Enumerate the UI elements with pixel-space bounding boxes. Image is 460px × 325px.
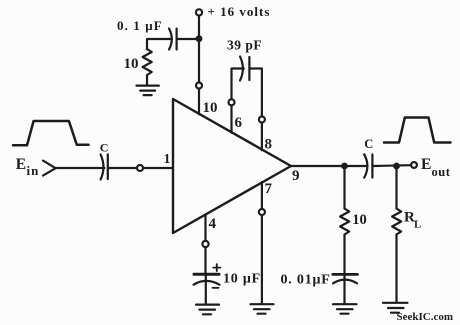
- input arrow: [43, 161, 56, 176]
- label Ein: [16, 156, 40, 178]
- wire output node down to resistor 10: [343, 166, 345, 209]
- wire pin 10 circle to op-amp: [198, 89, 200, 114]
- svg-text:C: C: [100, 140, 109, 154]
- pin 6 label: [235, 115, 243, 131]
- svg-text:8: 8: [265, 137, 273, 153]
- wire terminal to op-amp pin 1: [143, 167, 173, 169]
- label 10 (output resistor): [352, 212, 367, 228]
- label C (input): [100, 140, 109, 154]
- capacitor 39pF: [240, 57, 243, 81]
- wire pin 7 from op-amp: [261, 182, 263, 209]
- capacitor C (input coupling): [101, 155, 104, 180]
- capacitor 0.1uF: [176, 29, 178, 50]
- svg-text:0. 01μF: 0. 01μF: [281, 272, 331, 287]
- svg-text:9: 9: [292, 168, 300, 184]
- svg-text:L: L: [414, 219, 421, 231]
- label 10 (decoupling resistor): [124, 56, 139, 72]
- pin 1 label: [164, 152, 171, 167]
- svg-text:1: 1: [164, 152, 171, 167]
- pin 8 circle: [259, 117, 265, 123]
- label 0.01uF: [281, 272, 331, 287]
- junction dot RL node: [393, 163, 400, 170]
- wire 0.01uF to ground: [343, 276, 345, 303]
- output pulse waveform: [384, 118, 451, 143]
- wire pin 8 circle to op-amp: [261, 123, 263, 150]
- junction dot supply node: [196, 35, 203, 42]
- +16V supply terminal: [196, 9, 202, 15]
- pin 7 circle: [259, 209, 265, 215]
- output wire pin 9: [291, 165, 368, 167]
- minus sign 10uF: [213, 287, 219, 289]
- wire input to capacitor C: [56, 167, 105, 169]
- watermark SeekIC.com: [397, 311, 454, 323]
- capacitor 10uF top plate: [194, 273, 219, 276]
- wire pin 8 riser: [250, 69, 262, 117]
- wire output cap to terminal: [373, 164, 410, 167]
- ground (RL): [383, 303, 408, 313]
- junction dot output node: [341, 163, 348, 170]
- wire +16V down to pin 10 circle: [198, 16, 200, 82]
- svg-text:SeekIC.com: SeekIC.com: [397, 311, 454, 323]
- svg-text:+ 16 volts: + 16 volts: [208, 4, 271, 19]
- ground (pin 7): [251, 304, 274, 314]
- pin 4 circle: [202, 241, 208, 247]
- label C (output): [364, 137, 373, 151]
- wire RL node down to RL: [395, 166, 397, 209]
- svg-text:4: 4: [209, 216, 217, 232]
- resistor RL: [392, 209, 401, 235]
- svg-text:10: 10: [352, 212, 367, 228]
- svg-text:6: 6: [235, 115, 243, 131]
- label +16 volts: [208, 4, 271, 19]
- wire pin 4 circle to 10uF cap: [204, 248, 206, 274]
- label 39pF: [227, 37, 262, 52]
- svg-text:10: 10: [203, 100, 218, 116]
- pin 4 label: [209, 216, 217, 232]
- pin 10 circle: [196, 83, 202, 89]
- ground (decoupling): [137, 86, 159, 96]
- wire pin 7 to ground: [261, 216, 263, 304]
- resistor 10 (output): [340, 209, 349, 235]
- wire pin 6 circle to op-amp: [230, 106, 232, 133]
- output terminal: [411, 162, 417, 168]
- capacitor 10uF bottom plate: [194, 281, 220, 285]
- wire junction to 0.1uF cap right plate: [178, 38, 200, 40]
- pin 7 label: [265, 181, 273, 197]
- svg-text:in: in: [27, 163, 40, 178]
- wire resistor to 0.01uF cap: [343, 235, 345, 274]
- svg-text:C: C: [364, 137, 373, 151]
- capacitor 0.01uF: [333, 273, 358, 276]
- pin 9 label: [292, 168, 300, 184]
- svg-text:E: E: [16, 156, 27, 173]
- op-amp U1 triangle: [173, 99, 291, 233]
- svg-text:7: 7: [265, 181, 273, 197]
- capacitor C (output coupling): [364, 154, 367, 177]
- input pulse waveform: [13, 121, 89, 145]
- plus sign 10uF: [213, 264, 220, 271]
- svg-text:10 μF: 10 μF: [223, 271, 261, 286]
- input terminal node: [137, 165, 143, 171]
- label 0.1uF: [117, 18, 163, 33]
- pin 8 label: [265, 137, 273, 153]
- wire RL to ground: [395, 235, 397, 303]
- svg-text:out: out: [432, 165, 451, 179]
- ground (0.01uF): [333, 304, 357, 314]
- wire capacitor to input terminal: [109, 167, 137, 169]
- wire pin 4 from op-amp: [204, 215, 206, 241]
- ground (10uF): [196, 305, 219, 315]
- svg-text:10: 10: [124, 56, 139, 72]
- label 10uF: [223, 271, 261, 286]
- label RL: [404, 210, 421, 231]
- wire 0.1uF left plate to corner and down: [147, 39, 172, 49]
- pin 10 label: [203, 100, 218, 116]
- svg-text:E: E: [421, 156, 432, 173]
- resistor 10 (decoupling): [143, 49, 152, 85]
- svg-text:0. 1 μF: 0. 1 μF: [117, 18, 163, 33]
- label Eout: [421, 156, 451, 179]
- pin 6 circle: [229, 99, 235, 105]
- svg-text:39 pF: 39 pF: [227, 37, 262, 52]
- wire 10uF to ground: [205, 276, 207, 304]
- wire pin 6 riser: [232, 69, 244, 99]
